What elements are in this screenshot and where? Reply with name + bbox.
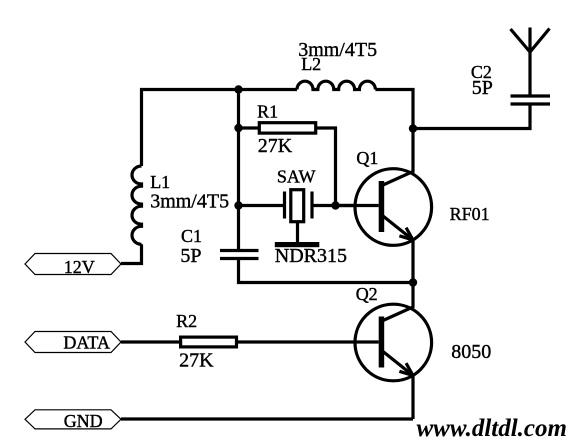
svg-text:5P: 5P	[472, 77, 493, 99]
wire top horizontal left segment	[142, 90, 298, 167]
wire C2 to antenna	[528, 52, 531, 96]
node D junction SAW right / Q1 base	[331, 201, 339, 209]
wire SAW left lead	[239, 204, 285, 207]
node A junction top	[234, 85, 242, 93]
wire SAW right to node D	[312, 204, 336, 207]
crystal SAW	[285, 190, 313, 222]
node junction SAW left	[234, 201, 242, 209]
wire node B to C2	[413, 104, 530, 129]
svg-text:C1: C1	[181, 226, 202, 246]
transistor Q1	[336, 129, 432, 283]
capacitor C2	[511, 96, 551, 104]
wire R1 left lead	[239, 126, 259, 129]
node C junction R1 left	[234, 124, 242, 132]
svg-text:27K: 27K	[179, 350, 214, 372]
antenna	[511, 28, 550, 53]
wire L1 bottom to 12V port	[121, 244, 142, 263]
wire L2 right to corner down to node B	[375, 90, 413, 129]
capacitor C1	[220, 251, 259, 259]
svg-text:DATA: DATA	[63, 333, 110, 353]
svg-text:5P: 5P	[180, 245, 201, 267]
svg-text:NDR315: NDR315	[275, 245, 347, 267]
wire node D to Q1 base	[336, 204, 380, 207]
port GND	[25, 410, 121, 431]
svg-text:RF01: RF01	[450, 204, 490, 224]
wire GND to Q2 emitter	[121, 417, 413, 420]
wire R1 right lead down to node D	[317, 128, 336, 206]
wire middle vertical from top node down to C1	[237, 88, 240, 250]
inductor L2	[297, 81, 375, 89]
resistor R1	[259, 123, 315, 133]
resistor R2	[181, 337, 237, 347]
port DATA	[25, 332, 121, 353]
svg-text:L2: L2	[301, 54, 321, 74]
inductor L1	[132, 166, 142, 244]
svg-text:R2: R2	[176, 311, 197, 331]
node E junction Q1 emitter / Q2 collector	[409, 278, 417, 286]
svg-text:3mm/4T5: 3mm/4T5	[150, 191, 229, 213]
svg-text:12V: 12V	[64, 257, 95, 277]
svg-text:Q1: Q1	[356, 148, 378, 168]
svg-text:Q2: Q2	[356, 284, 378, 304]
svg-text:R1: R1	[257, 102, 278, 122]
transistor Q2	[238, 283, 432, 420]
svg-text:GND: GND	[64, 411, 103, 431]
wire SAW case stem	[296, 223, 299, 243]
svg-text:27K: 27K	[258, 135, 293, 157]
port 12V	[25, 254, 121, 278]
wire C1 bottom to node E	[239, 258, 414, 283]
node B junction C2/collector Q1	[409, 124, 417, 132]
svg-text:SAW: SAW	[277, 167, 316, 187]
wire DATA to R2	[121, 340, 179, 343]
SAW case ground bar NDR315	[275, 242, 320, 247]
svg-text:www.dltdl.com: www.dltdl.com	[417, 415, 566, 440]
svg-text:L1: L1	[150, 172, 170, 192]
svg-text:8050: 8050	[451, 341, 491, 363]
